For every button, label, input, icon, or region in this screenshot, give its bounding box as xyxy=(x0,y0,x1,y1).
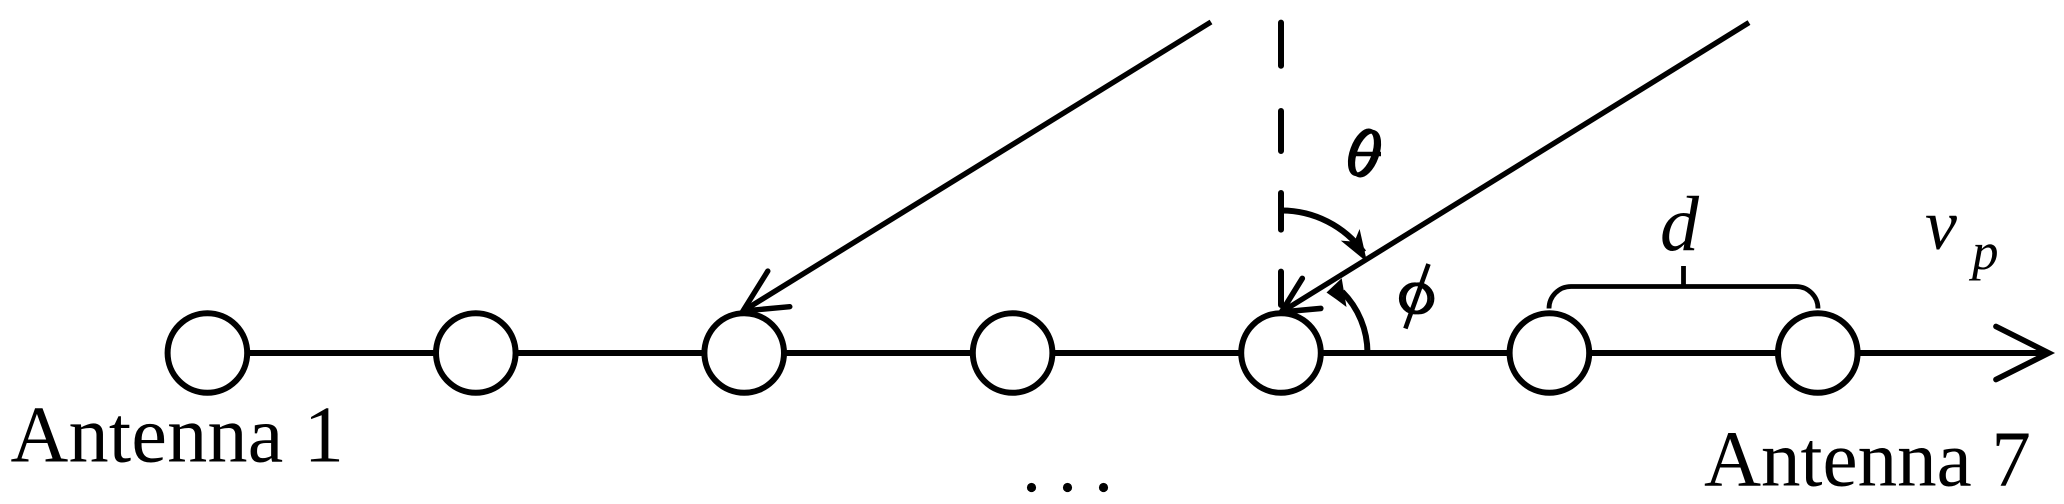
svg-text:d: d xyxy=(1660,180,1700,267)
svg-text:p: p xyxy=(1968,223,1999,281)
svg-text:Antenna 7: Antenna 7 xyxy=(1704,417,2031,504)
svg-text:v: v xyxy=(1925,185,1957,265)
svg-text:Antenna 1: Antenna 1 xyxy=(11,392,345,480)
